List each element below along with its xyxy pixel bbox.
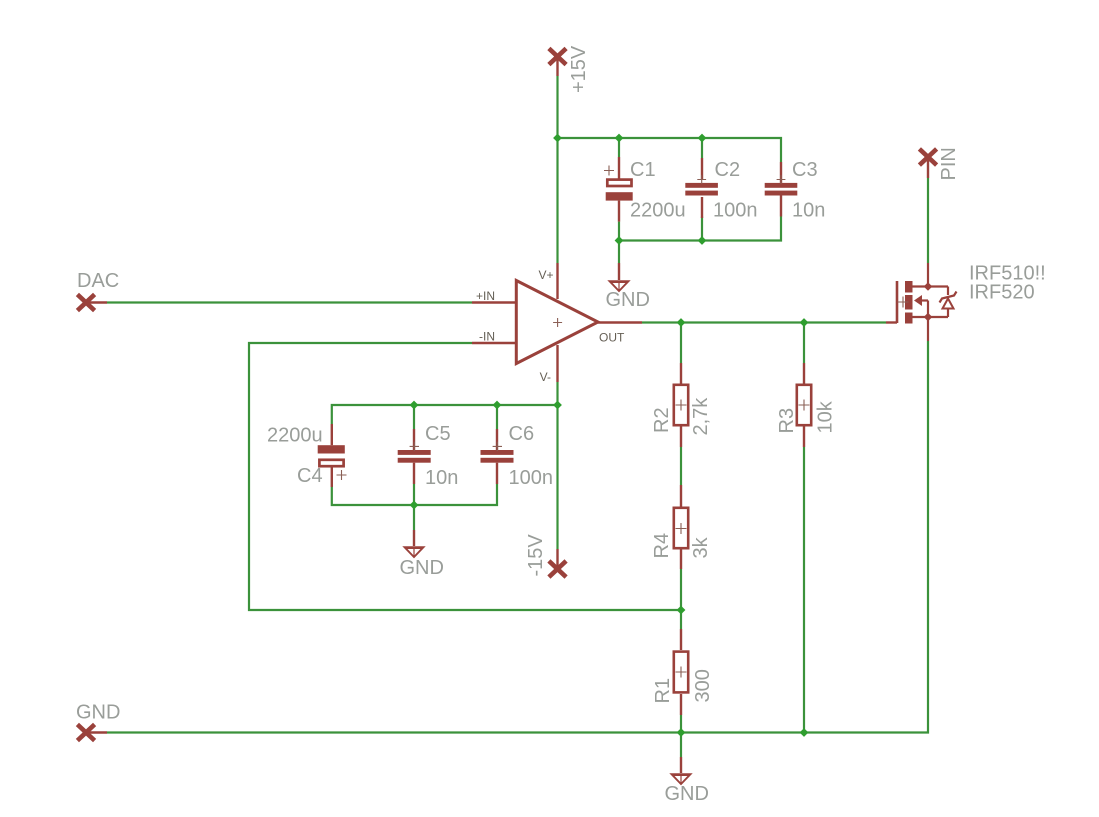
svg-text:C1: C1	[630, 159, 656, 181]
svg-text:3k: 3k	[690, 536, 712, 558]
svg-text:R1: R1	[652, 678, 674, 704]
svg-text:2200u: 2200u	[267, 425, 323, 447]
svg-text:GND: GND	[606, 289, 650, 311]
svg-text:OUT: OUT	[599, 331, 625, 345]
svg-text:C4: C4	[297, 465, 323, 487]
svg-text:C6: C6	[509, 423, 535, 445]
svg-text:2,7k: 2,7k	[690, 397, 712, 436]
svg-text:C3: C3	[792, 159, 818, 181]
svg-text:DAC: DAC	[77, 270, 119, 292]
svg-text:300: 300	[692, 669, 714, 702]
svg-text:GND: GND	[400, 557, 444, 579]
svg-text:GND: GND	[665, 783, 709, 805]
svg-text:IRF520: IRF520	[969, 282, 1035, 304]
svg-text:+15V: +15V	[568, 45, 590, 93]
svg-text:-IN: -IN	[479, 330, 495, 344]
svg-text:100n: 100n	[713, 200, 758, 222]
svg-text:C2: C2	[715, 159, 741, 181]
svg-text:10k: 10k	[815, 400, 837, 433]
svg-text:2200u: 2200u	[630, 200, 686, 222]
svg-text:V+: V+	[538, 268, 553, 282]
svg-text:C5: C5	[425, 423, 451, 445]
svg-text:100n: 100n	[509, 467, 554, 489]
svg-text:-15V: -15V	[525, 534, 547, 577]
svg-text:10n: 10n	[425, 467, 458, 489]
svg-text:PIN: PIN	[938, 147, 960, 180]
svg-text:R2: R2	[651, 407, 673, 433]
svg-text:R4: R4	[651, 533, 673, 559]
svg-text:+IN: +IN	[476, 289, 495, 303]
svg-text:10n: 10n	[792, 200, 825, 222]
svg-text:R3: R3	[776, 408, 798, 434]
svg-text:GND: GND	[76, 702, 120, 724]
svg-text:V-: V-	[540, 370, 551, 384]
